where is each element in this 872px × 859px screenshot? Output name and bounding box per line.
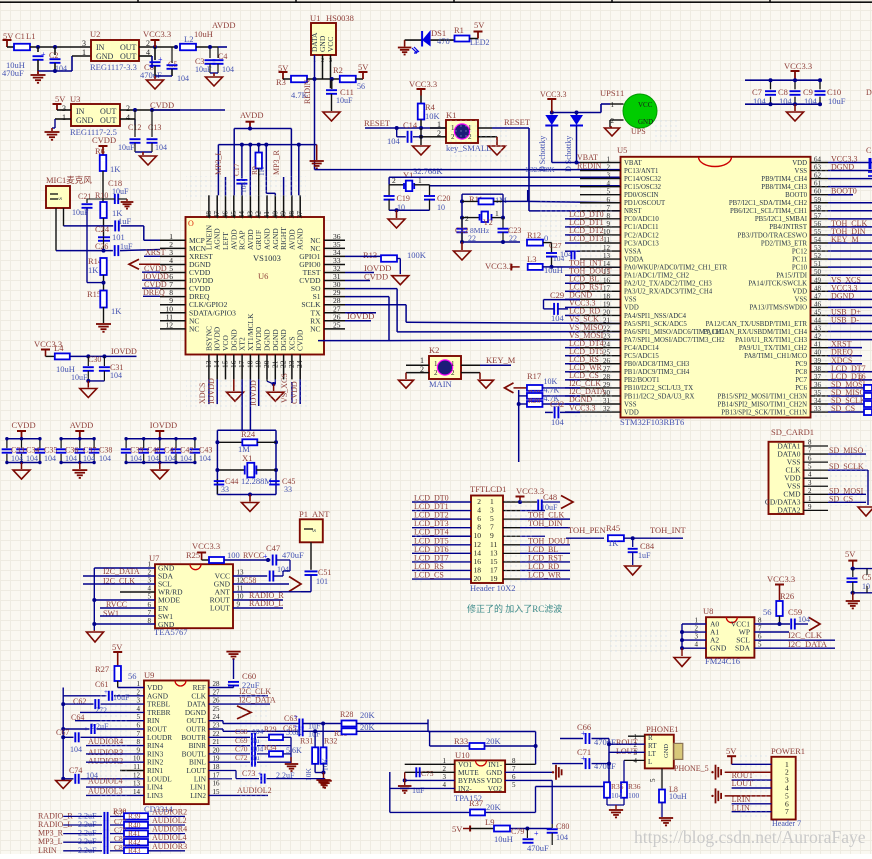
svg-text:PA7/SPI1_MOSI/ADC7/TIM3_CH2: PA7/SPI1_MOSI/ADC7/TIM3_CH2 (624, 337, 725, 344)
svg-text:TOH_INT: TOH_INT (650, 525, 687, 535)
svg-text:3: 3 (82, 39, 86, 48)
svg-text:VCC: VCC (638, 101, 653, 109)
svg-text:PB2/BOOT1: PB2/BOOT1 (624, 377, 660, 384)
svg-text:2: 2 (611, 117, 615, 125)
svg-text:32.768K: 32.768K (413, 166, 443, 176)
svg-text:OUT: OUT (100, 116, 117, 125)
svg-text:R33: R33 (454, 736, 468, 746)
svg-text:AVDD: AVDD (70, 420, 93, 430)
svg-text:C30: C30 (88, 355, 101, 364)
svg-text:PA4/SPI1_NSS/ADC4: PA4/SPI1_NSS/ADC4 (624, 313, 687, 320)
svg-text:PC10: PC10 (792, 264, 808, 271)
svg-text:IOVDD: IOVDD (150, 420, 177, 430)
svg-text:OUT: OUT (120, 43, 137, 52)
svg-text:PA10/U1_RX/TIM1_CH3: PA10/U1_RX/TIM1_CH3 (735, 337, 807, 344)
svg-text:VCC3.3: VCC3.3 (784, 61, 812, 71)
svg-text:RT: RT (648, 742, 657, 750)
svg-text:R15: R15 (87, 289, 101, 299)
svg-text:104: 104 (611, 791, 623, 800)
svg-text:20K: 20K (360, 710, 376, 720)
svg-text:C26: C26 (95, 242, 108, 251)
svg-text:C75: C75 (421, 769, 434, 778)
svg-text:5: 5 (607, 188, 611, 196)
svg-text:+: + (581, 754, 586, 763)
svg-text:104: 104 (164, 454, 176, 463)
svg-text:FM24C16: FM24C16 (705, 656, 740, 666)
svg-text:RESET: RESET (504, 117, 531, 127)
svg-text:VSS: VSS (624, 297, 637, 304)
svg-text:1K: 1K (111, 306, 122, 316)
svg-text:GND: GND (638, 118, 653, 126)
svg-text:100K: 100K (407, 250, 427, 260)
svg-text:RESET: RESET (364, 118, 391, 128)
svg-text:PB5/I2C1_SMBAI: PB5/I2C1_SMBAI (755, 216, 808, 223)
svg-text:10: 10 (862, 582, 870, 591)
svg-text:2: 2 (392, 176, 396, 185)
svg-text:PD0/OSCIN: PD0/OSCIN (624, 192, 658, 199)
svg-text:C24: C24 (95, 224, 110, 234)
svg-text:R26: R26 (780, 591, 794, 601)
svg-text:+: + (41, 50, 46, 59)
svg-text:VCC3.3: VCC3.3 (409, 79, 437, 89)
svg-text:AGND: AGND (296, 228, 305, 250)
svg-text:RADIO_L: RADIO_L (249, 599, 283, 608)
svg-text:PA9/U1_TX/TIM1_CH2: PA9/U1_TX/TIM1_CH2 (739, 345, 808, 352)
svg-text:CVDD: CVDD (150, 100, 174, 110)
svg-text:+: + (158, 55, 163, 64)
svg-text:BOOT0: BOOT0 (785, 192, 808, 199)
svg-text:U6: U6 (258, 271, 268, 281)
svg-text:C14: C14 (403, 120, 418, 130)
svg-text:6: 6 (808, 455, 812, 463)
svg-text:R20: R20 (528, 396, 541, 405)
svg-text:1: 1 (607, 156, 611, 164)
svg-text:PC9: PC9 (795, 361, 807, 368)
svg-text:101: 101 (112, 232, 125, 242)
svg-text:470: 470 (437, 36, 450, 46)
svg-text:MIC1麦克风: MIC1麦克风 (46, 175, 92, 185)
svg-text:17: 17 (213, 771, 221, 779)
svg-text:C84: C84 (640, 541, 655, 551)
svg-text:RVCC: RVCC (243, 551, 264, 560)
svg-text:470uF: 470uF (527, 843, 549, 853)
svg-text:104: 104 (65, 454, 77, 463)
svg-text:2: 2 (808, 487, 812, 495)
svg-text:PB9/TIM4_CH4: PB9/TIM4_CH4 (761, 176, 807, 183)
svg-text:104: 104 (753, 96, 767, 106)
svg-text:VSS: VSS (795, 168, 808, 175)
svg-text:104: 104 (44, 454, 56, 463)
svg-text:TFTLCD1: TFTLCD1 (470, 484, 506, 494)
svg-text:1: 1 (620, 88, 624, 98)
svg-text:R43: R43 (128, 846, 141, 854)
svg-text:R12: R12 (527, 230, 541, 240)
svg-text:R28: R28 (340, 710, 353, 719)
svg-text:R2: R2 (333, 65, 343, 75)
svg-text:DGND: DGND (831, 291, 854, 300)
svg-text:1: 1 (82, 48, 86, 57)
svg-text:104: 104 (26, 454, 38, 463)
svg-text:CVDD: CVDD (92, 135, 116, 145)
svg-text:24: 24 (295, 360, 304, 368)
svg-text:PC7: PC7 (795, 377, 807, 384)
svg-text:VSSA: VSSA (624, 248, 641, 255)
svg-text:C1: C1 (15, 31, 25, 41)
svg-text:PC3/ADC13: PC3/ADC13 (624, 240, 659, 247)
svg-text:OUT: OUT (100, 107, 117, 116)
svg-text:LOUT: LOUT (616, 747, 637, 756)
svg-text:POWER1: POWER1 (771, 746, 805, 756)
svg-text:I2C_DATA: I2C_DATA (103, 567, 140, 576)
svg-text:L2: L2 (184, 34, 193, 44)
svg-text:1: 1 (451, 360, 455, 368)
svg-text:1: 1 (418, 176, 422, 185)
svg-text:10uF: 10uF (118, 143, 135, 152)
svg-text:IN: IN (96, 43, 105, 52)
svg-text:R32: R32 (324, 737, 337, 746)
svg-text:L1: L1 (26, 31, 35, 41)
svg-text:VCC3.3: VCC3.3 (540, 90, 566, 99)
svg-text:REDIN: REDIN (577, 162, 602, 171)
svg-text:REDIN: REDIN (303, 79, 312, 104)
svg-text:TOH_DIN: TOH_DIN (528, 519, 563, 528)
svg-text:4: 4 (808, 471, 812, 479)
svg-text:C13: C13 (148, 123, 161, 132)
svg-text:SD_CS: SD_CS (831, 404, 855, 413)
svg-text:20K: 20K (486, 802, 502, 812)
svg-text:PC12: PC12 (792, 248, 808, 255)
svg-text:3: 3 (62, 104, 66, 113)
svg-text:P1: P1 (299, 509, 308, 519)
svg-text:CVDD: CVDD (296, 329, 305, 351)
svg-text:MAIN: MAIN (429, 379, 452, 389)
svg-text:PB0/ADC8/TIM3_CH3: PB0/ADC8/TIM3_CH3 (624, 361, 690, 368)
svg-text:104: 104 (110, 371, 122, 380)
svg-text:5.6K: 5.6K (286, 728, 302, 737)
svg-text:PA15/JTDI: PA15/JTDI (776, 273, 807, 280)
svg-text:7: 7 (808, 447, 812, 455)
svg-text:MP3_L: MP3_L (214, 150, 223, 175)
svg-text:LED2: LED2 (470, 38, 490, 47)
svg-text:3: 3 (607, 172, 611, 180)
svg-text:5: 5 (758, 641, 762, 649)
svg-text:PB8/TIM4_CH3: PB8/TIM4_CH3 (761, 184, 807, 191)
svg-text:5: 5 (649, 778, 657, 782)
svg-text:104: 104 (779, 96, 793, 106)
svg-text:DGND: DGND (831, 163, 854, 172)
svg-text:PD1/OSCOUT: PD1/OSCOUT (624, 200, 666, 207)
svg-text:19: 19 (213, 755, 221, 763)
svg-text:56: 56 (357, 82, 365, 91)
svg-text:12.288M: 12.288M (241, 476, 272, 486)
svg-text:DATA2: DATA2 (777, 506, 800, 515)
svg-text:2: 2 (434, 369, 438, 377)
svg-text:1: 1 (808, 495, 812, 503)
svg-text:REG1117-3.3: REG1117-3.3 (90, 62, 137, 72)
svg-text:10uF: 10uF (71, 373, 88, 382)
svg-text:10K: 10K (321, 758, 330, 772)
svg-text:PC4/ADC14: PC4/ADC14 (624, 345, 659, 352)
svg-text:10uF: 10uF (336, 96, 353, 105)
svg-text:R10: R10 (95, 191, 108, 200)
svg-text:PA3/U2_RX/ADC3/TIM2_CH4: PA3/U2_RX/ADC3/TIM2_CH4 (624, 289, 713, 296)
svg-text:USB_D-: USB_D- (831, 316, 859, 325)
svg-text:104: 104 (147, 454, 159, 463)
svg-text:LRIN: LRIN (38, 846, 57, 854)
svg-text:PA0/WKUP/ADC0/TIM2_CH1_ETR: PA0/WKUP/ADC0/TIM2_CH1_ETR (624, 264, 728, 271)
svg-text:U8: U8 (703, 606, 713, 616)
svg-text:C19: C19 (397, 194, 410, 203)
svg-text:1: 1 (495, 209, 499, 218)
svg-text:UPS1: UPS1 (600, 88, 620, 98)
svg-text:R: R (858, 374, 864, 383)
svg-text:LIN2: LIN2 (190, 791, 206, 800)
svg-text:L9: L9 (485, 817, 494, 827)
svg-text:R1: R1 (454, 25, 464, 35)
svg-text:PA5/SPI1_SCK/ADC5: PA5/SPI1_SCK/ADC5 (624, 321, 687, 328)
svg-text:PC5/ADC15: PC5/ADC15 (624, 353, 659, 360)
svg-text:s: s (56, 197, 64, 200)
svg-text:C32: C32 (550, 399, 564, 409)
svg-text:R24: R24 (241, 429, 256, 439)
svg-text:STM32F103RBT6: STM32F103RBT6 (620, 417, 684, 427)
svg-text:HS0038: HS0038 (326, 13, 354, 23)
svg-text:C20: C20 (437, 194, 450, 203)
svg-text:3: 3 (808, 479, 812, 487)
svg-text:1uF: 1uF (638, 551, 651, 560)
svg-text:R36: R36 (628, 782, 641, 791)
svg-text:VCC3.3: VCC3.3 (485, 261, 513, 271)
svg-text:104: 104 (70, 745, 82, 754)
svg-text:PB7/I2C1_SDA/TIM4_CH2: PB7/I2C1_SDA/TIM4_CH2 (729, 200, 808, 207)
svg-text:PB11/I2C2_SDA/U3_RX: PB11/I2C2_SDA/U3_RX (624, 393, 694, 400)
svg-text:C48: C48 (543, 492, 557, 502)
svg-text:U3: U3 (70, 94, 80, 104)
svg-text:2.2uF: 2.2uF (78, 846, 97, 854)
svg-text:U9: U9 (144, 670, 154, 680)
svg-text:+: + (581, 729, 586, 738)
svg-text:56: 56 (763, 607, 772, 617)
svg-text:104: 104 (387, 136, 401, 146)
svg-text:PB10/I2C2_SCL/U3_TX: PB10/I2C2_SCL/U3_TX (624, 385, 693, 392)
svg-text:UPS: UPS (631, 127, 646, 136)
svg-text:PC2/ADC12: PC2/ADC12 (624, 232, 659, 239)
svg-text:100: 100 (227, 550, 240, 560)
svg-text:22: 22 (213, 730, 221, 738)
svg-text:R35: R35 (611, 782, 624, 791)
svg-text:NC: NC (189, 324, 199, 333)
svg-text:4: 4 (607, 180, 611, 188)
svg-text:BOOT0: BOOT0 (831, 187, 857, 196)
svg-text:LT: LT (648, 750, 657, 758)
svg-text:KEY_M: KEY_M (831, 235, 859, 244)
svg-text:4: 4 (126, 113, 130, 122)
svg-text:PB15/SPI2_MOSI/TIM1_CH3N: PB15/SPI2_MOSI/TIM1_CH3N (717, 393, 807, 400)
svg-text:104: 104 (177, 74, 189, 83)
svg-text:C74: C74 (69, 766, 82, 775)
svg-text:PB1/ADC9/TIM3_CH4: PB1/ADC9/TIM3_CH4 (624, 369, 690, 376)
svg-text:LOUT: LOUT (210, 604, 230, 613)
svg-text:GND: GND (663, 744, 670, 758)
svg-text:5: 5 (808, 463, 812, 471)
svg-text:NC: NC (310, 324, 320, 333)
svg-text:PA1/ADC1/TIM2_CH2: PA1/ADC1/TIM2_CH2 (624, 273, 690, 280)
svg-text:VCC: VCC (326, 37, 335, 52)
svg-text:10uF: 10uF (828, 96, 846, 106)
svg-text:C29: C29 (550, 290, 564, 300)
svg-text:PC6: PC6 (795, 385, 807, 392)
svg-text:VDD: VDD (792, 289, 807, 296)
svg-text:10: 10 (437, 203, 445, 212)
svg-text:LIN3: LIN3 (147, 791, 163, 800)
svg-text:PHONE_5: PHONE_5 (674, 764, 709, 773)
svg-text:6: 6 (607, 196, 611, 204)
svg-text:D: D (866, 88, 872, 97)
svg-text:20: 20 (474, 574, 482, 583)
svg-text:VDD: VDD (792, 160, 807, 167)
svg-text:104: 104 (551, 417, 565, 427)
svg-text:PHONE1: PHONE1 (646, 724, 679, 734)
svg-text:1: 1 (62, 113, 66, 122)
svg-text:PA2/U2_TX/ADC2/TIM2_CH3: PA2/U2_TX/ADC2/TIM2_CH3 (624, 281, 712, 288)
svg-text:104: 104 (222, 65, 234, 74)
svg-text:R17: R17 (527, 371, 541, 381)
svg-text:L4: L4 (54, 343, 64, 353)
svg-text:PC11: PC11 (792, 256, 807, 263)
svg-text:+: + (263, 552, 268, 561)
svg-text:33: 33 (221, 485, 229, 494)
svg-text:PB13/SPI2_SCK/TIM1_CH1N: PB13/SPI2_SCK/TIM1_CH1N (721, 409, 807, 416)
svg-text:VSS: VSS (795, 297, 808, 304)
svg-text:100: 100 (628, 791, 640, 800)
svg-text:20K: 20K (486, 736, 502, 746)
svg-text:Y1: Y1 (403, 170, 413, 180)
svg-text:s: s (310, 529, 318, 532)
svg-text:PA8/TIM1_CH1/MCO: PA8/TIM1_CH1/MCO (744, 353, 807, 360)
svg-text:GND: GND (96, 52, 114, 61)
svg-text:AVDD: AVDD (240, 110, 263, 120)
svg-text:AUDIOR3: AUDIOR3 (152, 842, 187, 851)
svg-text:2: 2 (126, 104, 130, 113)
svg-text:VO2: VO2 (488, 784, 503, 793)
svg-text:L: L (648, 758, 652, 766)
svg-text:R45: R45 (606, 523, 620, 533)
svg-text:1: 1 (611, 101, 615, 109)
svg-text:5V: 5V (452, 824, 463, 834)
svg-text:+: + (534, 829, 539, 838)
svg-text:5V: 5V (726, 746, 737, 756)
svg-text:C47: C47 (266, 543, 280, 553)
svg-text:TEA5767: TEA5767 (154, 627, 188, 637)
svg-text:ANT: ANT (312, 509, 330, 519)
svg-text:PB3/JTDO/TRACESWO: PB3/JTDO/TRACESWO (738, 232, 808, 239)
svg-text:OUT: OUT (120, 52, 137, 61)
svg-text:U2: U2 (90, 29, 100, 39)
svg-text:104: 104 (556, 833, 568, 842)
svg-text:C17: C17 (232, 163, 241, 176)
svg-text:PA11/CAN_RX/USBDM/TIM1_CH4: PA11/CAN_RX/USBDM/TIM1_CH4 (703, 329, 807, 336)
svg-text:104: 104 (83, 454, 95, 463)
svg-text:PC14/OSC32: PC14/OSC32 (624, 176, 662, 183)
svg-text:8: 8 (808, 439, 812, 447)
svg-text:104: 104 (199, 454, 211, 463)
svg-text:L3: L3 (527, 254, 536, 264)
svg-text:U1: U1 (310, 13, 320, 23)
svg-text:20: 20 (213, 746, 221, 754)
svg-text:104: 104 (798, 615, 810, 624)
svg-text:TOH_PEN: TOH_PEN (568, 525, 606, 535)
svg-text:VCC3.3: VCC3.3 (143, 29, 171, 39)
svg-text:GND: GND (76, 116, 94, 125)
svg-text:C79: C79 (511, 827, 524, 836)
svg-text:VCC3.3: VCC3.3 (516, 486, 544, 496)
svg-text:10uH: 10uH (669, 792, 687, 801)
svg-text:MP3_R: MP3_R (272, 149, 281, 175)
svg-text:U5: U5 (617, 145, 627, 155)
svg-text:16: 16 (213, 780, 221, 788)
svg-text:1.32.768K: 1.32.768K (525, 166, 555, 174)
svg-text:5V: 5V (358, 62, 369, 72)
svg-text:1uF: 1uF (118, 216, 132, 226)
svg-text:IOVDD: IOVDD (111, 347, 137, 356)
svg-text:101: 101 (316, 577, 328, 586)
svg-text:1M: 1M (495, 195, 507, 205)
svg-text:5V: 5V (55, 94, 66, 104)
svg-text:X1: X1 (242, 453, 252, 463)
svg-text:104: 104 (11, 454, 23, 463)
svg-text:+: + (294, 713, 298, 721)
svg-text:1: 1 (420, 356, 424, 365)
svg-text:1K: 1K (110, 164, 121, 174)
svg-text:C80: C80 (556, 822, 569, 831)
svg-text:R37: R37 (469, 798, 483, 808)
svg-text:1: 1 (434, 360, 438, 368)
svg-text:修正了的 加入了RC滤波: 修正了的 加入了RC滤波 (467, 603, 562, 614)
svg-text:9: 9 (808, 503, 812, 511)
svg-text:2: 2 (607, 164, 611, 172)
svg-text:R27: R27 (95, 664, 109, 674)
svg-text:KEY_M: KEY_M (486, 355, 516, 365)
svg-text:37: 37 (295, 211, 304, 219)
svg-text:D Schottky: D Schottky (564, 136, 573, 172)
svg-text:6: 6 (758, 633, 762, 641)
svg-text:5V: 5V (474, 20, 485, 30)
svg-text:PC15/OSC32: PC15/OSC32 (624, 184, 662, 191)
svg-text:104: 104 (99, 454, 111, 463)
svg-text:104: 104 (155, 143, 167, 152)
svg-text:7: 7 (785, 807, 789, 816)
svg-text:PB4/JNTRST: PB4/JNTRST (769, 224, 808, 231)
svg-text:R: R (648, 734, 653, 742)
svg-text:2: 2 (451, 369, 455, 377)
svg-text:56: 56 (128, 671, 137, 681)
svg-text:C2: C2 (49, 51, 58, 60)
svg-text:VCC3.3: VCC3.3 (767, 574, 795, 584)
svg-text:PC13/ANT1: PC13/ANT1 (624, 168, 658, 175)
svg-text:25: 25 (213, 705, 221, 713)
svg-text:1K: 1K (608, 538, 619, 548)
svg-text:PB6/I2C1_SCL/TIM4_CH1: PB6/I2C1_SCL/TIM4_CH1 (730, 208, 807, 215)
svg-text:VBAT: VBAT (624, 160, 643, 167)
svg-text:VDD: VDD (624, 409, 639, 416)
svg-text:C51: C51 (318, 568, 331, 577)
svg-text:PC8: PC8 (795, 369, 807, 376)
svg-text:10uH: 10uH (194, 29, 213, 39)
svg-text:PC1/ADC11: PC1/ADC11 (624, 224, 659, 231)
svg-text:12: 12 (166, 320, 174, 329)
svg-text:104: 104 (553, 254, 565, 263)
svg-text:5V: 5V (845, 549, 856, 559)
